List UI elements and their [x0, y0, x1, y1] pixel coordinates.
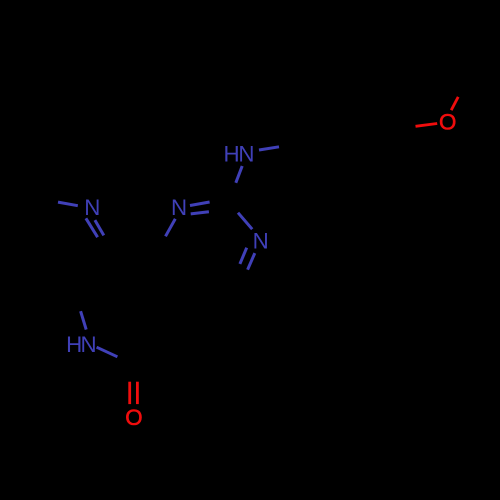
svg-text:O: O [125, 405, 142, 430]
wire N1-C8a half-bond [166, 219, 176, 237]
svg-text:N: N [238, 141, 254, 166]
svg-text:N: N [171, 195, 187, 220]
wire N(pyridine)-CH half-bond [58, 202, 78, 206]
wire CH2-N(lactam) half-bond [81, 311, 87, 329]
wire C=O double bond halves [130, 382, 138, 404]
svg-text:N: N [253, 228, 269, 253]
wire N(anilino)-C1' phenyl half-bond [259, 147, 279, 150]
wire C2-N3 half-bond [238, 213, 252, 230]
svg-text:O: O [439, 110, 456, 135]
svg-text:N: N [84, 195, 100, 220]
wire O-CH3 half-bond [451, 97, 458, 110]
svg-text:H: H [224, 141, 240, 166]
wire N(lactam)-C(=O) half-bond [97, 347, 118, 357]
wire N1=C2 double bond halves [190, 202, 210, 214]
wire C4'(phenyl)-O half-bond [416, 124, 438, 127]
wire N(pyridine)=C double bond halves [86, 218, 104, 237]
wire N3=C4 double bond halves [240, 248, 255, 270]
svg-text:N: N [81, 332, 97, 357]
wire N(anilino)-C2 half-bond [236, 166, 242, 183]
